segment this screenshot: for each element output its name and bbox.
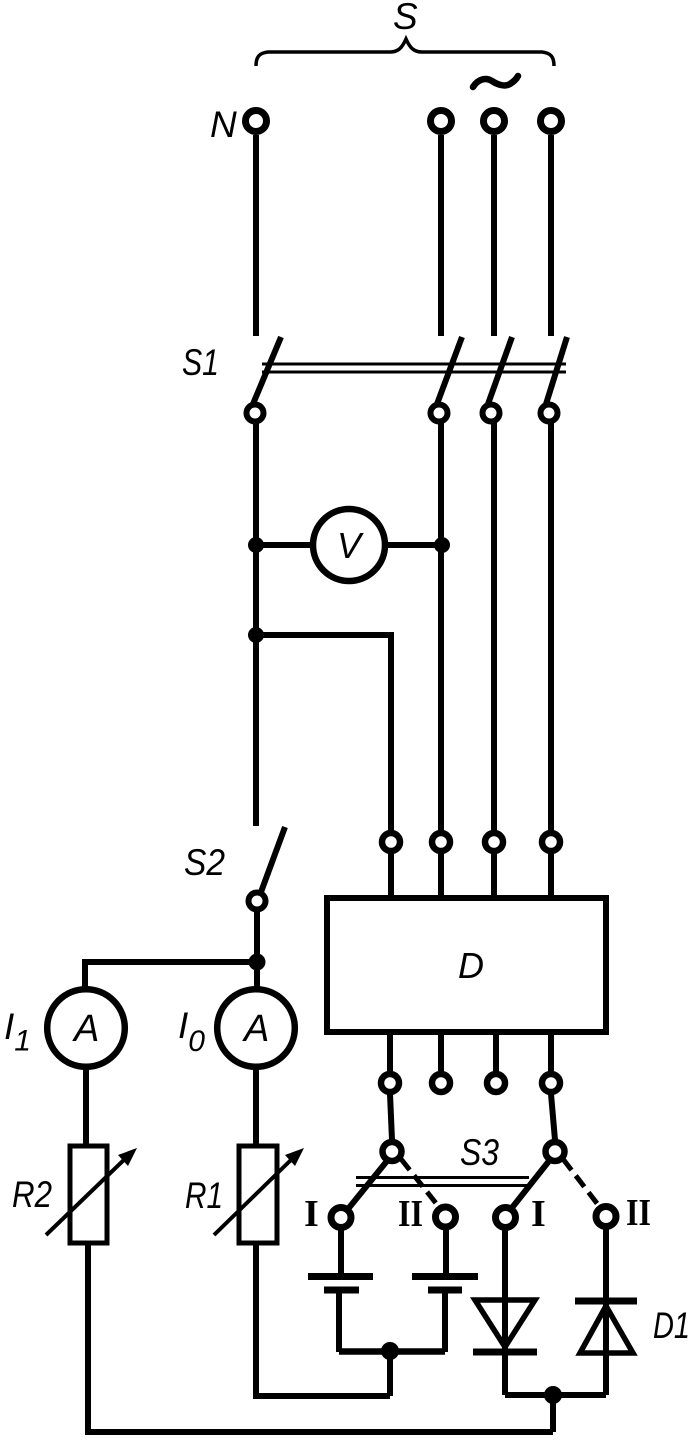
- wire L2 middle: [491, 422, 497, 831]
- D output terminal 2: [432, 1074, 450, 1092]
- S3 pole B blade: [511, 1161, 549, 1209]
- wire II-a to C2: [443, 1228, 449, 1274]
- AC symbol ~: [473, 76, 518, 87]
- rheostat R1 body: [239, 1146, 277, 1243]
- D input terminal 1: [382, 833, 400, 851]
- svg-text:II: II: [398, 1193, 423, 1235]
- wire I0 to R1: [253, 1067, 259, 1147]
- wire I-a to C1: [338, 1229, 344, 1274]
- wire V right: [385, 542, 441, 548]
- wire junction to ammeter I1: [85, 962, 257, 989]
- wire L1 top: [438, 135, 444, 336]
- wire I-b to D1 left: [502, 1229, 508, 1352]
- ammeter A (I0): [217, 989, 295, 1067]
- svg-text:S2: S2: [184, 842, 225, 883]
- voltmeter U1 V: [313, 509, 385, 581]
- switch S1 pole 3 contact: [483, 405, 500, 422]
- svg-text:A: A: [242, 1008, 269, 1050]
- switch S1 gang bar: [262, 363, 566, 366]
- svg-text:I: I: [531, 1193, 546, 1235]
- svg-text:I: I: [304, 1193, 319, 1235]
- switch S1 pole 1 contact: [247, 405, 264, 422]
- D output stub 2: [438, 1032, 444, 1072]
- wire L1 middle: [438, 422, 444, 831]
- S3 contact I-a: [331, 1208, 351, 1228]
- wire N middle: [253, 422, 259, 826]
- wire N tap to D input 1: [256, 635, 391, 831]
- wire to S3 pole B: [551, 1094, 555, 1140]
- capacitor C2 bottom plate: [428, 1287, 462, 1294]
- S3 pole B dashed to II: [563, 1159, 599, 1206]
- svg-text:S3: S3: [460, 1132, 499, 1173]
- junction dot diode bus: [544, 1386, 562, 1404]
- D output stub 4: [548, 1032, 554, 1072]
- D input stub 4: [548, 853, 554, 898]
- rheostat R2 body: [70, 1146, 107, 1243]
- D output terminal 1: [381, 1074, 399, 1092]
- switch S2 blade: [261, 827, 285, 892]
- capacitor C2 top plate: [412, 1273, 478, 1280]
- svg-text:D1: D1: [653, 1305, 690, 1346]
- svg-text:I0: I0: [178, 1005, 205, 1058]
- wire L3 middle: [548, 422, 554, 831]
- switch S1 pole 1 blade: [253, 337, 281, 404]
- S3 gang bar: [356, 1176, 529, 1179]
- capacitor C1 bottom plate: [324, 1287, 359, 1294]
- D input stub 2: [438, 853, 444, 898]
- junction dot capacitor bus: [381, 1342, 399, 1360]
- svg-text:I1: I1: [4, 1006, 31, 1058]
- switch S2 contact: [249, 893, 266, 910]
- rectifier block D: [327, 898, 606, 1032]
- svg-text:V: V: [337, 525, 364, 566]
- wire L2 top: [491, 135, 497, 336]
- D output terminal 4: [542, 1074, 560, 1092]
- capacitor bus: [339, 1348, 445, 1355]
- wire I1 to R2: [83, 1067, 89, 1147]
- brace S: [256, 39, 554, 66]
- svg-text:S: S: [393, 0, 418, 37]
- S3 contact II-b: [596, 1207, 616, 1227]
- D input terminal 3: [485, 833, 503, 851]
- switch S1 pole 4 blade: [546, 337, 567, 404]
- switch S1 pole 2 blade: [437, 337, 462, 404]
- svg-text:A: A: [72, 1008, 99, 1050]
- capacitor C1 top plate: [308, 1273, 373, 1280]
- svg-text:D: D: [458, 945, 484, 986]
- diode bus: [505, 1392, 606, 1398]
- S3 pole A dashed to II: [401, 1159, 439, 1207]
- wire diode bus down: [550, 1395, 556, 1432]
- junction dot V left: [248, 537, 264, 553]
- wire N top: [253, 135, 259, 336]
- switch S1 pole 4 contact: [541, 405, 558, 422]
- S3 contact I-b: [496, 1208, 516, 1228]
- terminal N: [246, 111, 267, 132]
- rheostat R1 arrow: [214, 1156, 295, 1235]
- wire C1 to bus: [336, 1293, 342, 1352]
- junction dot S2: [249, 954, 266, 971]
- terminal L3: [541, 111, 562, 132]
- S3 pole A common: [383, 1142, 402, 1161]
- wire V left: [256, 542, 313, 548]
- D input stub 3: [491, 853, 497, 898]
- ammeter A (I1): [47, 989, 125, 1067]
- wire cap bus down: [387, 1351, 393, 1396]
- S3 pole A blade: [348, 1161, 387, 1209]
- wire L3 top: [548, 135, 554, 336]
- terminal L2: [484, 111, 505, 132]
- D input terminal 4: [542, 833, 560, 851]
- diode D1 left (cathode down): [475, 1300, 535, 1347]
- svg-text:S1: S1: [182, 342, 219, 383]
- rheostat R2 arrow: [46, 1156, 128, 1235]
- svg-text:N: N: [210, 104, 237, 145]
- D output stub 3: [493, 1032, 499, 1072]
- diode D1 right (cathode up): [575, 1298, 637, 1305]
- junction dot N tap: [248, 627, 264, 643]
- junction dot V right: [434, 537, 450, 553]
- wire S2 to junction: [254, 911, 260, 988]
- D input stub 1: [388, 853, 394, 898]
- S3 contact II-a: [436, 1207, 456, 1227]
- wire C2 to bus: [442, 1293, 448, 1352]
- D input terminal 2: [432, 833, 450, 851]
- wire II-b to D1 right: [603, 1228, 609, 1353]
- switch S1 pole 2 contact: [431, 405, 448, 422]
- wire R1 bottom rail: [256, 1243, 390, 1396]
- svg-text:R1: R1: [185, 1175, 223, 1216]
- svg-text:R2: R2: [12, 1174, 52, 1215]
- terminal L1: [431, 111, 452, 132]
- switch S1 pole 3 blade: [488, 337, 512, 404]
- D output stub 1: [387, 1032, 393, 1072]
- S3 pole B common: [546, 1142, 565, 1161]
- svg-text:II: II: [626, 1192, 651, 1234]
- wire to S3 pole A: [390, 1094, 392, 1140]
- D output terminal 3: [487, 1074, 505, 1092]
- wire R2 bottom rail: [88, 1243, 553, 1432]
